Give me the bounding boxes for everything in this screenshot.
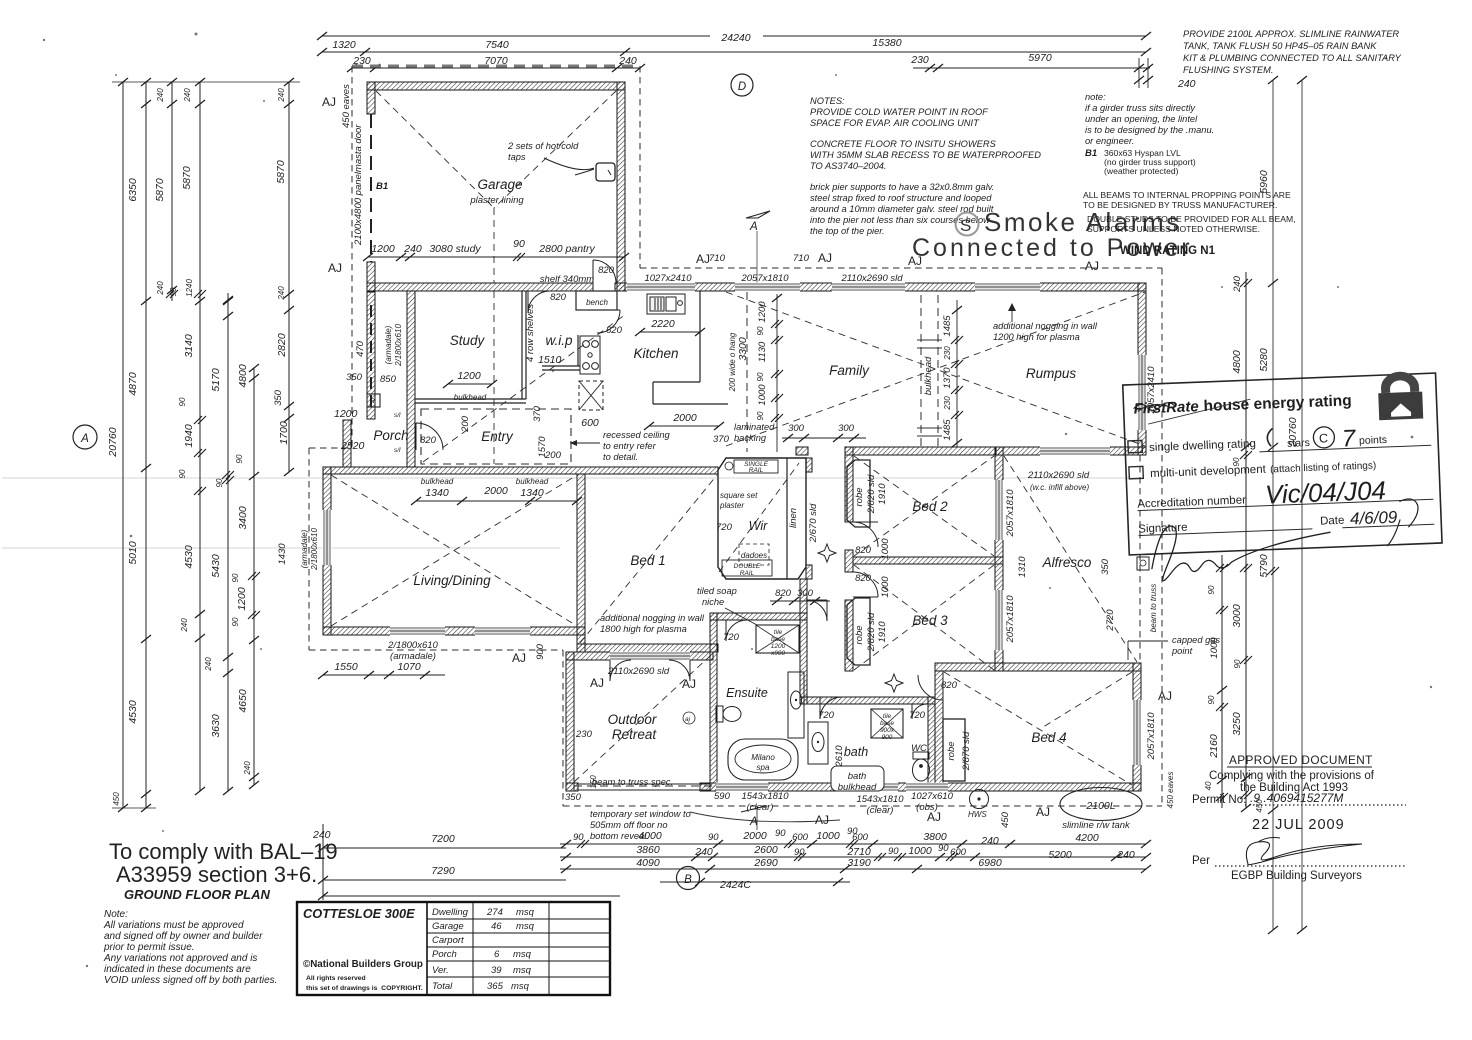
svg-text:Smoke Alarms: Smoke Alarms <box>984 207 1182 237</box>
vertical dim lines <box>122 82 124 808</box>
svg-text:s/l: s/l <box>394 412 401 419</box>
svg-text:2/870 sld: 2/870 sld <box>961 731 972 771</box>
svg-text:1000: 1000 <box>757 384 768 406</box>
svg-text:2110x2690 sld: 2110x2690 sld <box>1027 470 1090 481</box>
svg-text:B: B <box>684 874 692 886</box>
svg-text:1910: 1910 <box>877 483 888 505</box>
svg-text:A33959 section 3+6.: A33959 section 3+6. <box>116 862 317 887</box>
svg-text:taps: taps <box>508 152 526 162</box>
wall ensuite top <box>710 613 807 620</box>
svg-text:bulkhead: bulkhead <box>923 356 934 395</box>
wip bottom shelf <box>542 365 580 367</box>
svg-text:AJ: AJ <box>328 261 342 275</box>
bulkhead dashed family <box>920 295 922 450</box>
wip divider <box>521 291 523 399</box>
svg-text:slimline r/w tank: slimline r/w tank <box>1062 820 1131 831</box>
svg-text:90: 90 <box>231 617 240 626</box>
svg-text:4 row shelves: 4 row shelves <box>525 304 536 362</box>
kitchen fridge/bench <box>699 291 701 382</box>
svg-text:msq: msq <box>513 949 532 960</box>
svg-text:linen: linen <box>788 508 799 528</box>
windows: rumpus right wall <box>1138 355 1147 430</box>
svg-text:1000: 1000 <box>908 845 932 857</box>
svg-text:2057x1810: 2057x1810 <box>1005 489 1016 538</box>
svg-text:AJ: AJ <box>1158 689 1172 703</box>
beam to truss dashed line outdoor retreat <box>574 785 713 787</box>
svg-text:VOID unless signed off by both: VOID unless signed off by both parties. <box>104 975 277 986</box>
window: outdoor retreat top sld <box>610 652 690 661</box>
family dim chain <box>776 294 778 452</box>
svg-text:240: 240 <box>277 88 286 103</box>
svg-text:Any variations not approved an: Any variations not approved and is <box>103 953 257 964</box>
kitchen sink <box>647 294 685 314</box>
wall bed2/bed3 divider <box>853 557 1003 564</box>
svg-text:this set of drawings is COPYR: this set of drawings is COPYRIGHT. <box>306 985 423 992</box>
svg-text:1027x610: 1027x610 <box>911 791 953 802</box>
tile base ensuite <box>756 625 799 653</box>
svg-text:2720: 2720 <box>1105 609 1116 632</box>
svg-text:Milano: Milano <box>751 753 775 762</box>
bed4 robe <box>943 719 965 781</box>
svg-text:square set: square set <box>720 491 758 500</box>
svg-text:S: S <box>960 216 971 235</box>
row 1 <box>1128 440 1142 453</box>
svg-text:820: 820 <box>941 680 958 691</box>
svg-text:4530: 4530 <box>183 545 195 569</box>
svg-text:6350: 6350 <box>127 178 139 202</box>
svg-text:350: 350 <box>1100 558 1111 575</box>
svg-text:AJ: AJ <box>696 252 710 266</box>
wall top main (kitchen-family-rumpus) <box>617 283 1146 291</box>
svg-text:B1: B1 <box>376 181 388 192</box>
garage bottom dim row <box>368 256 624 258</box>
windows: living left wall armadale <box>323 510 332 565</box>
svg-text:D: D <box>738 81 746 93</box>
svg-text:2/820 sld: 2/820 sld <box>866 474 877 514</box>
svg-text:RAIL: RAIL <box>740 570 755 577</box>
svg-text:230: 230 <box>943 396 952 411</box>
svg-text:base: base <box>771 636 785 643</box>
svg-text:To comply with BAL–19: To comply with BAL–19 <box>109 839 338 864</box>
svg-text:3140: 3140 <box>183 334 195 358</box>
ticks line5 <box>223 297 233 305</box>
svg-text:370: 370 <box>532 405 543 422</box>
dim 7290 row <box>323 879 566 881</box>
padlock icon <box>1380 371 1419 393</box>
svg-text:AJ: AJ <box>1036 805 1050 819</box>
svg-text:bath: bath <box>844 745 868 759</box>
ticks rows <box>561 840 571 848</box>
svg-text:2800 pantry: 2800 pantry <box>538 243 595 255</box>
svg-text:indicated in these documents a: indicated in these documents are <box>104 964 251 975</box>
svg-text:.9 .4069415277M: .9 .4069415277M <box>1250 791 1343 805</box>
svg-text:5170: 5170 <box>210 368 222 392</box>
right bottom rows <box>560 843 1146 845</box>
svg-text:robe: robe <box>854 625 865 644</box>
svg-text:Bed 4: Bed 4 <box>1031 730 1066 745</box>
rainwater tank <box>1060 788 1142 821</box>
svg-text:820: 820 <box>855 545 872 556</box>
wall living bottom <box>323 627 585 635</box>
svg-text:230: 230 <box>943 346 952 361</box>
ensuite toilet <box>716 706 741 722</box>
scribble over first words <box>1133 402 1175 411</box>
svg-text:450 eaves: 450 eaves <box>1166 772 1175 809</box>
svg-text:1027x2410: 1027x2410 <box>644 273 692 284</box>
svg-text:Garage: Garage <box>477 177 522 192</box>
svg-text:bulkhead: bulkhead <box>421 477 454 486</box>
svg-text:90: 90 <box>231 573 240 582</box>
svg-text:5790: 5790 <box>1258 554 1270 578</box>
GROUP: walls and rooms <box>309 66 1162 806</box>
svg-text:5010: 5010 <box>127 541 139 565</box>
svg-text:1200: 1200 <box>457 370 481 382</box>
svg-text:dadoes: dadoes <box>741 551 767 560</box>
svg-text:(clear): (clear) <box>747 802 774 813</box>
svg-text:EGBP Building Surveyors: EGBP Building Surveyors <box>1231 870 1362 882</box>
svg-text:(weather protected): (weather protected) <box>1104 166 1179 176</box>
svg-text:temporary set window to: temporary set window to <box>590 809 691 819</box>
oven dashed box with X <box>579 381 603 410</box>
wall garage left bottom stub <box>367 262 375 292</box>
svg-text:HWS: HWS <box>968 810 987 819</box>
wall bottom main <box>566 783 578 791</box>
svg-text:24240: 24240 <box>720 32 750 44</box>
svg-text:2160: 2160 <box>1208 734 1220 759</box>
svg-text:40: 40 <box>1204 781 1213 790</box>
WIR box <box>718 458 806 579</box>
svg-text:2220: 2220 <box>650 318 675 330</box>
smoke alarms ghost stamp <box>912 207 1193 262</box>
svg-text:tile: tile <box>883 713 892 720</box>
svg-text:90: 90 <box>888 846 899 857</box>
svg-text:2424C: 2424C <box>719 879 751 891</box>
wall outdoor retreat left <box>566 652 574 791</box>
wall armadale left below garage <box>367 291 375 419</box>
dim 1320 7540 15380 <box>322 51 1146 53</box>
svg-text:(w.c. infill above): (w.c. infill above) <box>1030 483 1089 492</box>
svg-text:4530: 4530 <box>127 700 139 724</box>
svg-text:720: 720 <box>818 710 835 721</box>
svg-text:Note:: Note: <box>104 909 128 920</box>
wall family/bed2 <box>845 447 1003 455</box>
svg-text:1800 high for plasma: 1800 high for plasma <box>600 624 687 634</box>
wall ensuite left <box>710 613 717 791</box>
svg-text:200 wide o hang: 200 wide o hang <box>728 332 737 392</box>
svg-text:2/820 sld: 2/820 sld <box>866 612 877 652</box>
svg-text:1485: 1485 <box>942 315 953 337</box>
svg-text:points: points <box>1359 434 1387 447</box>
grid circle D <box>731 74 753 96</box>
wall hall/bath left <box>800 579 807 704</box>
capped gas point leader <box>1128 640 1168 642</box>
svg-text:B1: B1 <box>1085 148 1097 159</box>
svg-text:Garage: Garage <box>432 921 464 932</box>
svg-text:3080 study: 3080 study <box>429 243 481 255</box>
svg-text:3190: 3190 <box>847 857 871 869</box>
svg-text:AJ: AJ <box>590 676 604 690</box>
svg-text:laminated: laminated <box>734 422 775 432</box>
svg-text:900x: 900x <box>880 727 895 734</box>
svg-text:240: 240 <box>156 88 165 103</box>
svg-text:90: 90 <box>756 372 765 381</box>
wall living top / porch slab <box>323 467 718 474</box>
wall outdoor retreat top <box>566 652 713 660</box>
svg-text:2690: 2690 <box>753 857 778 869</box>
approved document stamp <box>1192 753 1406 882</box>
wall rumpus bottom <box>996 447 1146 455</box>
svg-text:2100x4800 panelmasta door: 2100x4800 panelmasta door <box>353 124 364 246</box>
dim 24240 overall <box>322 35 710 37</box>
windows: beds right wall <box>995 480 1004 650</box>
svg-text:820: 820 <box>420 435 437 446</box>
wall living left <box>323 467 331 635</box>
svg-text:300: 300 <box>788 423 805 434</box>
svg-text:(armadale): (armadale) <box>300 529 309 568</box>
svg-text:3000: 3000 <box>1231 604 1243 628</box>
svg-text:240: 240 <box>980 835 999 847</box>
svg-text:2000: 2000 <box>672 412 697 424</box>
svg-text:msq: msq <box>511 981 530 992</box>
svg-text:to detail.: to detail. <box>603 452 638 462</box>
svg-text:Ver.: Ver. <box>432 965 449 976</box>
svg-text:Outdoor: Outdoor <box>608 712 657 727</box>
svg-text:Bed 1: Bed 1 <box>630 553 665 568</box>
wall living right / bed1 left <box>577 474 585 652</box>
dim 7200 row <box>323 847 566 849</box>
wall bed4 left / robe <box>935 671 943 791</box>
svg-text:Entry: Entry <box>481 429 514 444</box>
garage panelmasta door dashed <box>370 114 372 262</box>
svg-text:Per: Per <box>1192 855 1210 867</box>
energy rating stamp <box>1123 370 1443 582</box>
faint scan artifact lines <box>2 478 1140 548</box>
svg-text:All variations must be approve: All variations must be approved <box>103 920 244 931</box>
ticks line4 <box>195 78 205 86</box>
svg-text:the top of the pier.: the top of the pier. <box>810 226 885 236</box>
svg-text:DOUBLE: DOUBLE <box>734 563 761 570</box>
svg-text:240: 240 <box>183 88 192 103</box>
svg-text:WC: WC <box>911 743 927 754</box>
svg-text:1370: 1370 <box>942 367 953 389</box>
ticks line7 <box>284 78 294 86</box>
wall study left <box>407 291 415 467</box>
svg-text:1200: 1200 <box>334 408 358 420</box>
svg-text:350: 350 <box>346 372 363 383</box>
svg-text:C: C <box>1319 431 1329 445</box>
svg-text:2000: 2000 <box>742 830 767 842</box>
svg-text:7200: 7200 <box>431 833 455 845</box>
svg-text:3250: 3250 <box>1231 712 1243 736</box>
alfresco beam box <box>1137 557 1149 570</box>
study bottom wall <box>415 291 728 404</box>
svg-text:2820: 2820 <box>276 333 288 358</box>
svg-text:capped gas: capped gas <box>1172 635 1220 645</box>
svg-text:2600: 2600 <box>753 844 778 856</box>
family robe nib walls <box>796 447 808 455</box>
svg-text:5870: 5870 <box>154 178 166 202</box>
row 3 left <box>323 895 620 897</box>
svg-text:240: 240 <box>156 281 165 296</box>
svg-text:2520: 2520 <box>340 440 365 452</box>
svg-text:2/1800x610: 2/1800x610 <box>310 528 319 571</box>
wall rumpus right <box>1138 283 1146 455</box>
svg-text:710: 710 <box>793 253 810 264</box>
svg-text:Wir: Wir <box>749 519 768 533</box>
svg-text:90: 90 <box>235 454 244 463</box>
svg-text:spa: spa <box>757 763 770 772</box>
svg-text:robe: robe <box>946 741 957 760</box>
svg-text:plaster: plaster <box>719 501 744 510</box>
svg-text:240: 240 <box>277 286 286 301</box>
svg-text:90: 90 <box>178 397 187 406</box>
svg-text:90: 90 <box>756 326 765 335</box>
svg-text:39: 39 <box>491 965 502 976</box>
svg-text:2610: 2610 <box>834 745 845 768</box>
svg-text:720: 720 <box>716 522 733 533</box>
svg-text:600: 600 <box>581 417 599 429</box>
svg-text:1320: 1320 <box>332 39 356 51</box>
svg-text:4/6/09: 4/6/09 <box>1350 508 1399 529</box>
svg-text:niche: niche <box>702 597 724 607</box>
svg-text:if a girder truss sits directl: if a girder truss sits directly <box>1085 103 1196 113</box>
svg-text:COTTESLOE 300E: COTTESLOE 300E <box>303 906 415 921</box>
svg-text:2110x2690 sld: 2110x2690 sld <box>607 666 670 677</box>
svg-text:6980: 6980 <box>978 857 1002 869</box>
wall garage top <box>367 82 625 90</box>
dim 230 7070 240 garage <box>352 67 640 69</box>
svg-text:SPACE FOR EVAP. AIR COOLING UN: SPACE FOR EVAP. AIR COOLING UNIT <box>810 118 980 128</box>
window: rumpus bottom sld <box>1040 447 1110 456</box>
svg-text:plaster lining: plaster lining <box>469 195 524 206</box>
svg-text:TO AS3740–2004.: TO AS3740–2004. <box>810 161 887 171</box>
wc toilet <box>913 752 930 781</box>
svg-text:90: 90 <box>1233 659 1242 668</box>
svg-text:FLUSHING SYSTEM.: FLUSHING SYSTEM. <box>1183 65 1273 75</box>
ensuite vanity <box>788 672 804 738</box>
svg-text:450: 450 <box>1000 811 1011 828</box>
svg-text:bulkhead: bulkhead <box>838 782 877 793</box>
row 2 <box>1129 466 1143 479</box>
svg-text:5280: 5280 <box>1258 348 1270 372</box>
svg-text:850: 850 <box>380 374 397 385</box>
svg-text:90: 90 <box>938 843 949 854</box>
svg-text:46: 46 <box>491 921 502 932</box>
GROUP: left dimension lines <box>107 78 300 812</box>
svg-text:x900: x900 <box>770 650 785 657</box>
svg-text:4090: 4090 <box>636 857 660 869</box>
bath bulkhead box <box>831 766 884 791</box>
eaves dashed outline <box>352 65 640 68</box>
svg-text:under an opening, the lintel: under an opening, the lintel <box>1085 114 1198 124</box>
svg-text:200: 200 <box>544 450 562 461</box>
svg-text:240: 240 <box>403 243 422 255</box>
svg-text:2 sets of hot/cold: 2 sets of hot/cold <box>507 141 579 151</box>
milano spa <box>728 739 798 780</box>
GROUP: title block <box>297 902 610 995</box>
svg-text:beam to truss spec.: beam to truss spec. <box>592 777 673 787</box>
svg-text:RAIL: RAIL <box>749 467 764 474</box>
svg-text:©National Builders Group: ©National Builders Group <box>303 959 423 970</box>
svg-text:AJ: AJ <box>1085 259 1099 273</box>
svg-text:820: 820 <box>775 588 792 599</box>
svg-text:msq: msq <box>516 921 535 932</box>
svg-text:bottom reveal.: bottom reveal. <box>590 831 649 841</box>
svg-text:tile: tile <box>774 629 783 636</box>
entry recessed ceiling dashed <box>421 409 571 464</box>
bed3 robe <box>847 598 870 665</box>
svg-text:PROVIDE 2100L APPROX. SLIMLINE: PROVIDE 2100L APPROX. SLIMLINE RAINWATER <box>1183 29 1399 39</box>
ticks line3 <box>167 78 177 86</box>
svg-text:5870: 5870 <box>181 166 193 190</box>
girder note <box>1085 92 1214 146</box>
svg-text:1000: 1000 <box>816 830 840 842</box>
wall bath top <box>800 697 935 704</box>
svg-text:150: 150 <box>589 775 598 789</box>
bath vanity <box>808 722 828 764</box>
svg-text:90: 90 <box>169 287 178 296</box>
notes block <box>810 96 1041 236</box>
svg-text:Date: Date <box>1320 515 1345 528</box>
svg-text:505mm off floor no: 505mm off floor no <box>590 820 668 830</box>
svg-text:msq: msq <box>516 907 535 918</box>
svg-text:stars: stars <box>1287 437 1310 450</box>
ticks line1 <box>118 78 128 86</box>
svg-text:Alfresco: Alfresco <box>1042 555 1092 570</box>
svg-text:point: point <box>1171 646 1193 656</box>
svg-text:All rights reserved: All rights reserved <box>306 975 366 982</box>
wall bed1 bottom <box>577 644 718 652</box>
svg-text:1070: 1070 <box>397 661 421 673</box>
svg-text:Complying with the provisions: Complying with the provisions of <box>1209 770 1375 782</box>
windows: top wall <box>627 283 1040 292</box>
svg-text:1430: 1430 <box>277 543 288 565</box>
svg-text:bench: bench <box>586 298 608 307</box>
svg-text:PROVIDE COLD WATER POINT IN RO: PROVIDE COLD WATER POINT IN ROOF <box>810 107 989 117</box>
top right rainwater note <box>1183 29 1402 75</box>
svg-text:additional nogging in wall: additional nogging in wall <box>600 613 705 623</box>
svg-text:90: 90 <box>215 478 224 487</box>
svg-text:to entry refer: to entry refer <box>603 441 657 451</box>
svg-text:Ensuite: Ensuite <box>726 686 768 700</box>
dim 230 5970 240 right <box>913 67 1150 69</box>
grid circle A left <box>73 425 97 449</box>
svg-text:1910: 1910 <box>877 621 888 643</box>
svg-text:1543x1810: 1543x1810 <box>741 791 789 802</box>
svg-text:230: 230 <box>910 54 929 66</box>
svg-text:3400: 3400 <box>237 506 249 530</box>
svg-text:4800: 4800 <box>1231 350 1243 374</box>
section marker A top <box>746 211 770 218</box>
svg-text:200: 200 <box>460 415 471 433</box>
svg-text:300: 300 <box>797 588 814 599</box>
svg-text:590: 590 <box>714 791 731 802</box>
svg-text:brick pier supports to have a: brick pier supports to have a 32x0.8mm g… <box>810 182 994 192</box>
svg-text:WITH 35MM SLAB RECESS TO BE WA: WITH 35MM SLAB RECESS TO BE WATERPROOFED <box>810 150 1041 160</box>
roof truss dashed lines <box>331 91 1145 785</box>
svg-text:recessed ceiling: recessed ceiling <box>603 430 670 440</box>
section marker A bottom <box>690 812 840 822</box>
svg-text:240: 240 <box>204 657 213 672</box>
wall wc right <box>928 697 935 791</box>
wall beds right <box>995 447 1003 671</box>
svg-text:350: 350 <box>565 792 582 803</box>
svg-text:240: 240 <box>1232 275 1243 293</box>
svg-text:3800: 3800 <box>923 831 947 843</box>
svg-text:900: 900 <box>535 643 546 660</box>
svg-text:7540: 7540 <box>485 39 509 51</box>
svg-text:274: 274 <box>486 907 503 918</box>
